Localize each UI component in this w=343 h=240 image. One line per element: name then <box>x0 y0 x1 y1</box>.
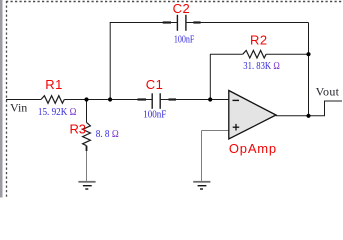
svg-text:R3: R3 <box>70 122 86 137</box>
svg-text:C1: C1 <box>146 77 164 92</box>
svg-text:8. 8 Ω: 8. 8 Ω <box>96 128 119 140</box>
svg-text:R2: R2 <box>250 33 268 48</box>
svg-text:OpAmp: OpAmp <box>229 141 277 156</box>
svg-text:100nF: 100nF <box>143 109 166 121</box>
svg-text:Vin: Vin <box>10 101 27 115</box>
svg-text:R1: R1 <box>45 77 63 92</box>
svg-text:15. 92K Ω: 15. 92K Ω <box>38 106 77 118</box>
svg-text:C2: C2 <box>173 1 191 16</box>
svg-text:100nF: 100nF <box>174 34 195 46</box>
svg-text:31. 83K Ω: 31. 83K Ω <box>243 60 279 72</box>
svg-text:Vout: Vout <box>316 85 340 99</box>
